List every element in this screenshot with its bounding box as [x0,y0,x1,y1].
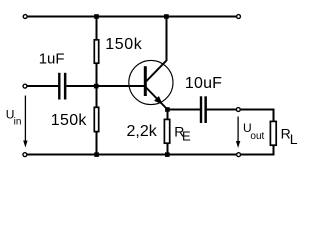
svg-text:150k: 150k [105,36,142,53]
svg-text:in: in [14,116,22,127]
arrow U_out [237,117,239,144]
arrow U_in [24,96,26,143]
capacitor C2 10uF left plate [200,96,202,123]
svg-text:L: L [290,131,298,147]
svg-text:E: E [182,129,191,144]
capacitor C1 1uF left plate [58,73,60,100]
wire emitter node to RE [166,110,168,120]
junction top rail right [164,14,169,19]
junction bottom rail left [94,152,99,157]
svg-text:2,2k: 2,2k [127,123,158,140]
capacitor C2 10uF right plate [204,96,207,123]
transistor Q1 circle [129,60,173,104]
transistor Q1 emitter line [146,88,167,110]
terminal output bottom [237,153,241,157]
wire base node to R2 [96,86,98,107]
wire C1 to base [66,85,144,87]
transistor Q1 emitter arrow [154,96,163,105]
junction base node [94,84,99,89]
wire output terminal to RL top [241,110,274,122]
wire bottom rail [27,154,236,156]
wire C2 to output terminal [207,109,236,111]
terminal bottom left [23,153,27,157]
transistor Q1 base bar [144,66,147,96]
resistor RE 2,2k [164,119,169,143]
resistor R2 150k [94,107,98,131]
wire input to C1 [27,85,58,87]
wire top rail to R1 [96,17,98,41]
wire R2 to bottom rail [96,132,98,155]
wire top supply rail [27,16,236,18]
wire RE to bottom rail [166,143,168,155]
terminal top left [23,15,27,19]
resistor RL [270,121,276,145]
terminal top right [237,15,241,19]
capacitor C1 1uF right plate [64,73,67,100]
terminal output top [236,108,240,112]
svg-text:out: out [250,131,264,142]
wire emitter node to C2 [167,109,200,111]
junction bottom rail right [165,152,170,157]
wire collector to top rail [165,17,167,61]
svg-text:1uF: 1uF [39,50,65,67]
resistor R1 150k [94,40,98,63]
terminal input [23,84,27,88]
svg-text:150k: 150k [51,112,88,129]
wire R1 to base node [96,63,98,86]
wire RL bottom to output terminal [241,145,273,155]
junction top rail left [94,14,99,19]
transistor Q1 collector line [146,61,166,82]
junction emitter node [165,107,170,112]
svg-text:10uF: 10uF [185,75,222,92]
